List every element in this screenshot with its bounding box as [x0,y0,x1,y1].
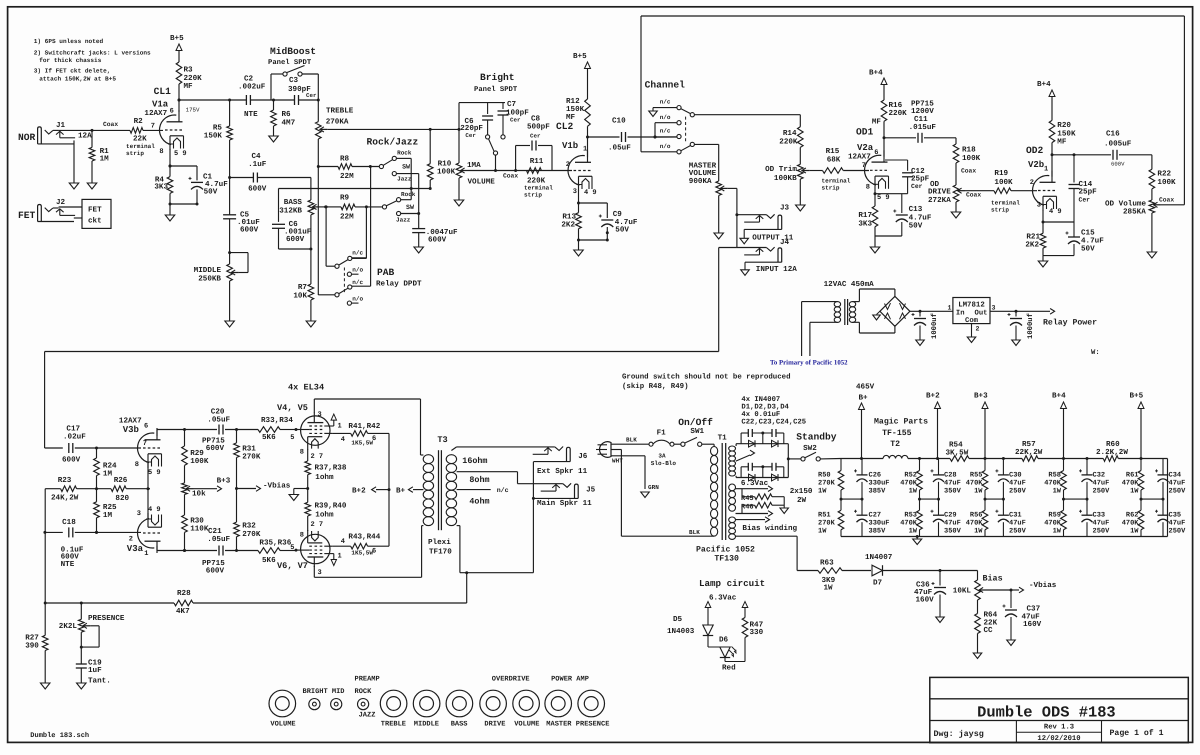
svg-text:4M7: 4M7 [282,120,296,128]
wire 8ohm tap [457,471,518,473]
svg-text:C35: C35 [1169,511,1182,519]
svg-text:n/o: n/o [660,143,671,150]
svg-text:TF170: TF170 [429,548,452,557]
resistor R9 [326,206,341,208]
resistor R6 [273,100,275,110]
svg-text:22M: 22M [340,172,354,181]
resistor R14 [798,127,804,148]
svg-text:3: 3 [1037,202,1041,210]
wire plug to fuse [611,443,649,445]
bridge rectifier [880,296,910,326]
wire lamp bottom [724,658,726,662]
svg-text:BLK: BLK [689,529,700,536]
svg-text:MF: MF [566,114,576,122]
svg-text:n/c: n/c [352,279,363,286]
svg-text:Rock: Rock [401,191,416,198]
wire lamp feed left [705,602,711,608]
knob MIDDLE (panel) [413,690,440,717]
svg-text:50V: 50V [1081,245,1095,254]
svg-text:5K6: 5K6 [262,433,276,442]
wire 10k wiper to B+3 [194,488,218,490]
svg-text:8: 8 [159,148,163,156]
node D7 out [939,569,942,572]
svg-text:Tant.: Tant. [88,677,111,686]
svg-text:220K: 220K [779,138,798,147]
resistor R62 [1138,510,1144,530]
wire master ground [718,196,720,234]
resistor R27 [44,603,46,635]
capacitor C9 [601,219,613,221]
svg-text:Ext Spkr 11: Ext Spkr 11 [537,467,588,476]
title block [930,677,1189,742]
svg-text:8: 8 [135,461,139,469]
svg-text:1M: 1M [103,512,113,520]
svg-text:R2: R2 [134,117,144,126]
resistor R30 [184,495,186,516]
wire V6 plate to T3 [313,566,315,577]
relay Channel contact4 n/o [677,150,681,154]
jack J1 [38,127,42,144]
svg-text:Rock: Rock [397,150,412,157]
capacitor 1000uf (2) [1015,311,1017,316]
svg-text:C16: C16 [1106,129,1120,138]
capacitor .0047uF [412,228,425,230]
relay PAB pole 2 [335,293,339,297]
svg-text:R7: R7 [298,284,308,292]
svg-text:160V: 160V [916,596,935,605]
relay Channel pole1 [690,113,694,117]
wire C2 to C3 [250,99,294,101]
svg-text:MF: MF [872,118,882,126]
svg-text:Dumble ODS #183: Dumble ODS #183 [977,703,1116,721]
svg-text:1W: 1W [1053,488,1062,496]
svg-text:B+4: B+4 [869,70,883,78]
svg-text:600V: 600V [206,566,225,575]
tube V1b (12AX7) [568,155,585,185]
svg-text:1K5,5W: 1K5,5W [351,550,373,557]
svg-text:250KB: 250KB [198,274,221,283]
svg-text:.05uF: .05uF [207,415,230,424]
svg-text:6: 6 [372,548,376,556]
wire screen bus [388,433,390,546]
svg-text:C7: C7 [507,100,517,109]
wire PAB riser 2 [365,207,367,259]
resistor R32 [236,489,238,523]
wire relay secondary bottom [853,321,860,323]
wire to C9 [579,202,608,204]
wire PAB nc2 to R8 bus [352,285,371,287]
svg-text:Coax: Coax [103,121,118,128]
wire V3b plate [156,430,158,437]
svg-text:100K: 100K [190,457,209,466]
svg-text:R33,R34: R33,R34 [261,416,293,425]
capacitor C7 (bright) [502,103,504,109]
wire rock/jazz bus y188 [279,188,431,190]
diode D7 [872,565,883,576]
svg-text:5 9: 5 9 [148,469,161,477]
svg-text:R54: R54 [949,441,963,449]
resistor R55 [984,459,986,471]
svg-text:6: 6 [170,108,174,116]
svg-text:12/02/2010: 12/02/2010 [1037,734,1080,743]
svg-text:n/o: n/o [352,295,363,302]
jack J6 [567,447,571,461]
svg-text:2K2: 2K2 [1025,241,1039,250]
knob VOLUME (panel) [269,690,296,717]
svg-text:n/o: n/o [660,114,671,121]
svg-text:V2b: V2b [1028,160,1044,170]
wire V1a plate up [178,100,180,112]
wire relay primary bottom [810,321,838,323]
svg-text:1M: 1M [103,471,113,479]
transformer T1 primary [711,447,718,456]
svg-text:NOR: NOR [18,132,36,143]
svg-text:Coax: Coax [1159,197,1174,204]
svg-text:270KA: 270KA [326,118,349,127]
svg-text:.0047uF: .0047uF [426,228,458,237]
svg-text:J5: J5 [586,487,596,495]
svg-text:-Vbias: -Vbias [1029,581,1057,590]
svg-text:R25: R25 [103,503,117,512]
svg-text:Cer: Cer [911,183,923,190]
svg-text:820: 820 [115,494,129,503]
ground J1 [69,183,79,189]
svg-text:R62: R62 [1126,511,1139,519]
rectifier top caps wire [740,433,742,444]
resistor R23 [61,486,77,492]
rectifier bottom caps wire [740,467,742,478]
wire SW1 to T1 [702,443,714,445]
svg-text:R11: R11 [530,158,544,166]
svg-text:3K3: 3K3 [858,219,872,228]
svg-text:3A: 3A [658,453,666,460]
wire V3b plate bus C20 [185,429,218,431]
ground OD DRIVE [951,212,961,218]
svg-text:22K,2W: 22K,2W [1015,448,1043,457]
svg-text:SW1: SW1 [690,427,704,436]
svg-text:Main Spkr 11: Main Spkr 11 [537,499,592,508]
wire J4 to power amp [719,247,737,249]
svg-text:1: 1 [338,423,342,431]
svg-text:C26: C26 [869,471,882,479]
svg-text:272KA: 272KA [928,196,951,205]
wire C19 ground [80,668,82,683]
svg-text:100K: 100K [962,154,981,163]
diode D5 [703,625,713,636]
svg-text:FET: FET [18,210,36,221]
svg-text:C11: C11 [914,115,928,124]
svg-text:47uF: 47uF [944,480,961,488]
wire LM7812 com ground [971,324,973,337]
wire R39 to V6 cathode [307,516,309,531]
switch SW rock/jazz lower [382,205,386,209]
svg-text:2.2K,2W: 2.2K,2W [1096,448,1128,457]
wire bias tap 2 [736,535,798,537]
svg-text:J3: J3 [780,204,790,213]
wire C9 bottom [606,227,608,240]
svg-text:150K: 150K [566,105,585,114]
wire OD Drive ground [955,202,957,212]
capacitor C36 [939,571,941,586]
svg-text:12A: 12A [78,132,92,141]
ground C37 [1007,640,1016,646]
svg-text:R8: R8 [340,155,350,164]
svg-text:n/c: n/c [660,128,671,135]
wire V2a plate up [883,138,885,157]
wire Rock contact riser [396,157,411,159]
node R5/C4 [228,176,231,179]
svg-text:3: 3 [573,188,577,196]
svg-text:R39,R40: R39,R40 [315,501,347,510]
svg-text:R27: R27 [25,634,39,643]
ground R7 [306,321,316,327]
diode D2 [772,440,779,447]
svg-text:1uF: 1uF [88,667,102,675]
wire T3 secondary bottom [457,525,460,527]
svg-text:NTE: NTE [61,561,75,569]
svg-text:WHT: WHT [612,458,623,465]
svg-text:50V: 50V [615,226,629,235]
wire -Vbias arrow (PI) [237,488,257,490]
ground channel nc1 [649,111,658,117]
AC plug [600,442,612,458]
resistor R21 [1040,233,1046,248]
wire V2b cathode [1042,210,1044,233]
svg-text:470K: 470K [966,480,984,488]
capacitor C33 [1086,499,1088,515]
resistor R37,R38 [305,461,311,475]
svg-text:1ohm: 1ohm [315,510,334,519]
transformer T3 secondary [446,455,456,464]
wire C1 bottom [196,189,198,204]
svg-text:On/Off: On/Off [678,417,713,428]
svg-text:VOLUME: VOLUME [514,720,539,728]
svg-text:SW: SW [402,163,410,170]
ground MIDDLE [225,321,235,327]
pot BASS 312KB [308,200,314,215]
svg-text:-Vbias: -Vbias [263,481,291,490]
resistor R64 [977,600,979,614]
svg-text:8: 8 [866,184,870,192]
capacitor C2 [245,95,247,105]
wire B+2 arrow (pamp) [376,489,389,491]
svg-text:1K5,5W: 1K5,5W [351,439,373,446]
svg-text:R32: R32 [242,522,256,531]
wire lower Rock riser [401,199,412,201]
resistor R8 [318,166,338,168]
wire C18 tap [45,531,63,533]
svg-text:C18: C18 [62,518,76,527]
node R8 right [369,165,372,168]
svg-text:DRIVE: DRIVE [484,720,505,728]
svg-text:220K: 220K [889,109,908,118]
svg-text:1) 6PS unless noted: 1) 6PS unless noted [34,38,104,45]
svg-text:R43,R44: R43,R44 [348,533,380,542]
svg-text:2: 2 [1030,179,1034,187]
svg-text:.02uF: .02uF [63,432,86,441]
svg-text:330uF: 330uF [869,480,890,488]
svg-text:BRIGHT MID: BRIGHT MID [303,688,345,696]
relay PAB link [343,268,345,294]
mid rail [841,498,862,500]
svg-text:LM7812: LM7812 [958,302,985,310]
pot OD Trim 100KB [798,164,804,179]
svg-text:250V: 250V [1009,488,1027,496]
svg-text:R59: R59 [1048,511,1061,519]
wire channel left riser [640,16,642,152]
knob MASTER (panel) [545,690,572,717]
svg-text:terminal: terminal [991,199,1020,206]
wire PAB nc1 stub [352,257,367,259]
capacitor C15 [1073,222,1075,237]
wire GRN [611,455,645,457]
relay PAB pole 1 [335,264,339,268]
wire OD2 cathode bottom rail [1043,255,1074,257]
capacitor C12 [907,160,909,171]
svg-text:600V: 600V [206,444,225,453]
wire B+ arrow (pamp) [413,489,423,491]
svg-text:22M: 22M [340,212,354,221]
wire V2b plate up [1051,155,1053,177]
svg-text:R20: R20 [1057,121,1071,130]
svg-text:R31: R31 [242,445,256,454]
svg-text:1W: 1W [909,528,918,536]
wire OD Volume wiper to rail [1161,204,1185,206]
resistor R29 [184,430,186,447]
relay Channel pole2 [690,142,694,146]
svg-text:R28: R28 [177,589,191,598]
svg-text:500pF: 500pF [527,123,550,132]
svg-text:R26: R26 [114,476,128,485]
svg-text:MF: MF [1057,139,1067,147]
svg-text:R9: R9 [340,193,350,202]
wire V1a cathode [169,149,171,177]
svg-text:22K: 22K [984,618,998,627]
capacitor C18 [68,527,70,537]
knob DRIVE (panel) [480,690,507,717]
resistor R13 [576,213,582,229]
svg-text:6: 6 [874,149,878,157]
transformer T1 bias winding [729,517,736,523]
diode D3 [749,474,756,481]
svg-text:R14: R14 [783,130,797,138]
capacitor C21 [218,546,220,556]
svg-text:Magic Parts: Magic Parts [874,418,928,427]
svg-text:strip: strip [991,206,1009,213]
svg-text:600V: 600V [248,184,267,193]
diode D1 [749,440,756,447]
svg-text:C9: C9 [613,210,623,219]
svg-text:.015uF: .015uF [909,123,937,132]
svg-text:1M: 1M [100,156,110,164]
svg-text:.1uF: .1uF [248,161,267,169]
wire C10 to channel [628,136,677,138]
svg-text:R30: R30 [190,517,204,526]
svg-text:1: 1 [583,146,587,154]
svg-text:MIDDLE: MIDDLE [414,720,439,728]
resistor R60 [1103,456,1118,462]
wire LM7812 out [990,310,1016,312]
transformer T1 HT winding [729,446,736,451]
transformer relay primary [834,302,840,307]
svg-text:Panel SPDT: Panel SPDT [474,85,518,94]
wire .0047 to ground [418,233,420,247]
pot VOLUME 1MA [458,103,460,163]
ground C19 [77,683,87,689]
svg-text:160V: 160V [1023,620,1042,629]
svg-text:C17: C17 [66,424,80,433]
svg-text:C13: C13 [909,205,923,214]
bottom rail [841,536,1168,538]
svg-text:5 9: 5 9 [174,150,187,158]
wire J1 to R2 [92,129,130,131]
node R9 right [365,205,368,208]
svg-text:Coax: Coax [503,173,518,180]
svg-text:V3a: V3a [127,544,144,554]
svg-text:R22: R22 [1157,169,1171,178]
svg-text:W:: W: [1091,349,1100,357]
svg-text:C22,C23,C24,C25: C22,C23,C24,C25 [741,418,806,426]
svg-text:T1: T1 [718,435,728,443]
B+ rail [841,458,883,460]
svg-text:4: 4 [341,538,345,546]
svg-text:2) Switchcraft jacks: L versio: 2) Switchcraft jacks: L versions [34,50,151,57]
wire NFB riser [44,489,46,603]
svg-text:470K: 470K [1044,520,1062,528]
svg-text:350V: 350V [944,488,962,496]
svg-text:.05uF: .05uF [207,535,230,544]
capacitor C5 [223,214,236,216]
relay PAB n/o 2 [347,301,351,305]
capacitor C17 [68,443,70,453]
svg-text:Bias: Bias [983,574,1003,584]
svg-text:B+5: B+5 [170,35,184,43]
svg-text:CL1: CL1 [154,86,172,97]
wire MIDDLE to ground [229,281,231,321]
capacitor C32 [1086,459,1088,475]
svg-text:B+: B+ [396,487,406,495]
svg-text:for thick chassis: for thick chassis [39,57,102,64]
resistor R11 [527,168,542,174]
switch Bright SPDT [486,135,490,139]
svg-text:strip: strip [126,150,144,157]
svg-text:C15: C15 [1081,229,1095,238]
svg-text:V4, V5: V4, V5 [277,403,308,413]
ground OD Volume [1147,252,1157,258]
svg-text:5: 5 [290,434,294,442]
knob BASS (panel) [446,690,473,717]
svg-text:R51: R51 [818,511,831,519]
svg-text:R37,R38: R37,R38 [315,464,347,473]
wire OD Trim ground [799,179,801,205]
svg-text:4K7: 4K7 [176,608,190,616]
svg-text:47uF: 47uF [1093,520,1110,528]
wire C11 to R18 [924,137,956,139]
capacitor C30 [1002,459,1004,475]
svg-text:ROCK: ROCK [355,688,373,696]
svg-text:strip: strip [524,192,542,199]
ground cap1000 1 [916,340,925,346]
svg-text:270K: 270K [242,530,261,539]
svg-text:R45: R45 [741,495,754,503]
resistor R26 [111,486,126,492]
wire J2 tip to FET box [59,206,82,208]
wire R45/R46 join [783,497,785,508]
svg-text:5 9: 5 9 [877,194,890,202]
wire J6 sleeve [533,461,570,463]
svg-text:B+3: B+3 [217,477,231,486]
resistor R1 [91,130,93,147]
